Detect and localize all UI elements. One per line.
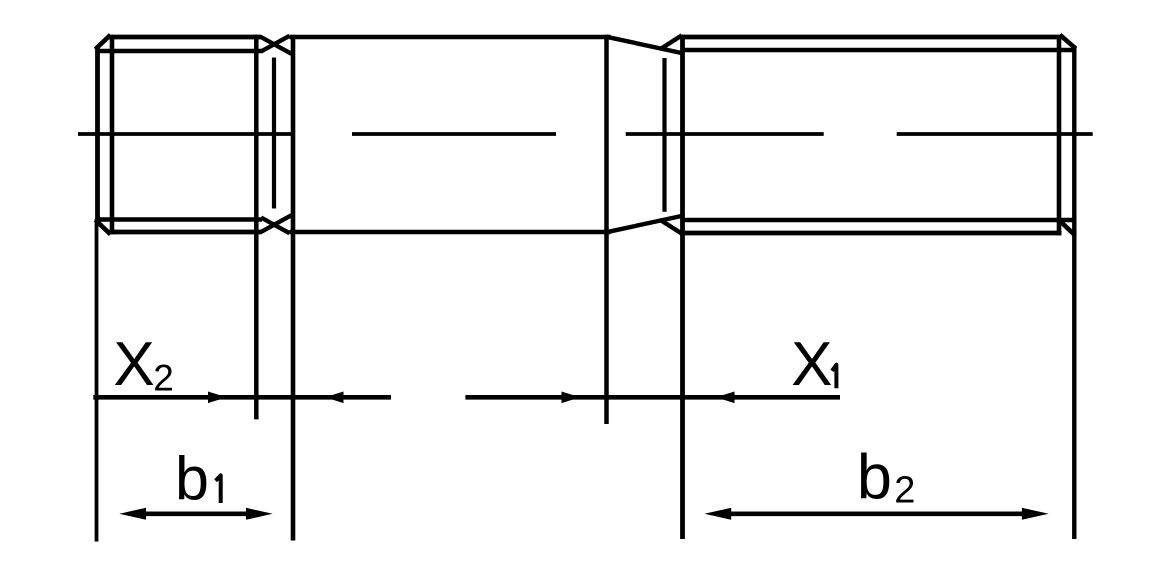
center line dash 4: [897, 132, 1093, 136]
right runout bottom shallow diagonal: [607, 216, 682, 232]
right runout thin vertical B2: [662, 58, 666, 212]
right bottom chamfer diagonal: [1060, 221, 1076, 236]
X row arrowhead right-pointing 1: [208, 392, 227, 404]
left thread major top line: [109, 35, 262, 40]
X row arrowhead left-pointing 1: [325, 392, 344, 404]
right chamfer vertical: [1057, 35, 1062, 235]
right face vertical with extension: [1072, 48, 1076, 539]
left extension line below face: [95, 219, 99, 542]
label X1 subscript 1: [832, 365, 836, 389]
right top chamfer diagonal: [1060, 35, 1076, 49]
X row dimension line middle: [465, 395, 840, 400]
left chamfer vertical: [110, 35, 115, 234]
b1 left arrowhead: [119, 508, 146, 520]
right thread major bottom line: [680, 231, 1062, 236]
svg-text:X: X: [113, 330, 154, 399]
X row arrowhead left-pointing 2: [716, 392, 735, 404]
svg-text:2: 2: [153, 357, 174, 398]
b1 right arrowhead: [246, 508, 273, 520]
left thread minor bottom line: [97, 217, 262, 221]
left top chamfer diagonal: [95, 35, 110, 50]
label b1 subscript 1: [216, 475, 221, 503]
left bottom chamfer diagonal: [95, 220, 110, 234]
right runout top diagonal 2: [661, 35, 682, 48]
svg-text:2: 2: [894, 470, 915, 512]
X row dimension line left: [93, 395, 391, 400]
shank top line: [290, 35, 611, 40]
left thread major bottom line: [109, 230, 262, 235]
left thread end vertical A with extension: [254, 35, 259, 420]
right shoulder vertical R with extension: [680, 35, 685, 539]
shoulder vertical C with extension: [291, 35, 296, 541]
left runout top diagonal 2: [261, 36, 290, 52]
left thread minor top line: [97, 49, 262, 53]
right thread major top line: [680, 35, 1062, 40]
left runout top diagonal 1: [260, 37, 292, 54]
right thread minor top line: [684, 48, 1077, 52]
b2 dimension line: [729, 511, 1024, 516]
middle vertical M with extension: [604, 35, 609, 424]
center line dash 3: [626, 132, 824, 136]
right runout top shallow diagonal: [607, 37, 682, 53]
svg-text:b: b: [857, 442, 892, 512]
center line dash 2: [352, 132, 556, 136]
svg-text:X: X: [791, 330, 832, 399]
center line dash 1: [78, 132, 295, 136]
left thread face vertical: [95, 49, 100, 221]
left runout thin vertical B: [272, 58, 276, 209]
right thread minor bottom line: [684, 218, 1077, 222]
b2 right arrowhead: [1022, 508, 1049, 520]
left runout bottom diagonal 1: [260, 215, 292, 232]
shank bottom line: [290, 230, 611, 235]
X row arrowhead right-pointing 2: [562, 392, 581, 404]
b1 dimension line: [144, 511, 248, 516]
right runout bottom diagonal 2: [661, 220, 682, 233]
svg-text:b: b: [175, 444, 209, 512]
b2 left arrowhead: [704, 508, 731, 520]
left runout bottom diagonal 2: [261, 218, 290, 234]
